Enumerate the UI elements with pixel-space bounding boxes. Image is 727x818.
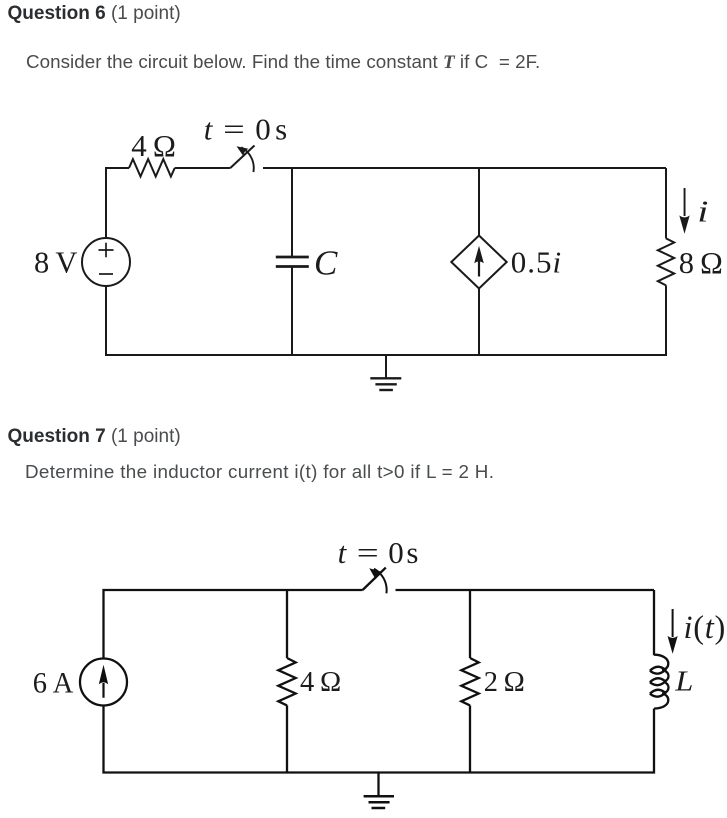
svg-text:8 V: 8 V [34,245,77,279]
svg-text:4 Ω: 4 Ω [300,667,341,698]
resistor R 4ohm circuit2 (vertical) [278,658,295,705]
ground GND2 stem [377,773,379,797]
ground GND1 stem [385,355,387,378]
svg-text:C: C [314,243,338,282]
svg-text:6 A: 6 A [33,668,74,700]
voltage source V1 circle 8V [82,238,130,286]
switch SW1 blade (open) [230,146,254,169]
svg-text:i(t): i(t) [684,610,727,646]
ground GND2 bar1 [364,795,394,798]
svg-text:0.5i: 0.5i [511,245,562,280]
resistor branch 4ohm wire bottom [286,705,288,772]
wire: resistor to switch pivot [175,167,231,169]
resistor R 4ohm (horizontal) [129,159,175,176]
switch SW2 blade (open) [363,568,386,590]
wire: 8ohm to bottom-right corner [106,285,666,355]
inductor L bump2 [665,683,668,693]
svg-text:L: L [674,665,693,697]
svg-text:i: i [697,194,708,228]
dependent source U1 internal arrow [474,246,484,277]
svg-text:4 Ω: 4 Ω [131,128,176,163]
svg-text:2 Ω: 2 Ω [484,667,525,698]
inductor L loop3 [650,690,666,697]
ground GND2 bar2 [369,801,390,804]
wire: circuit2 right edge to inductor [653,590,655,655]
current arrow i (circuit1) [679,188,689,234]
Question 7 header [8,426,181,448]
wire: switch to top-right corner [263,167,666,169]
svg-text:t=0s: t=0s [204,112,287,147]
switch SW1 arc arrowhead [237,146,249,156]
V1 minus sign [99,273,113,275]
wire: inductor to bottom-right corner [104,706,655,773]
inductor L bump1 [665,671,668,681]
ground GND1 bar2 [375,383,396,385]
resistor branch 2ohm wire top [469,590,471,658]
current source I1 internal arrow [99,665,108,698]
switch SW1 opening arc [241,147,253,172]
capacitor C top plate [276,256,309,259]
resistor R 2ohm circuit2 (vertical) [461,658,478,705]
switch SW2 opening arc [374,569,387,594]
Question 6 prompt [26,51,540,74]
ground GND1 bar3 [379,389,393,391]
switch SW2 arc arrowhead [369,568,381,579]
resistor branch 2ohm wire bottom [469,705,471,772]
wire: circuit1 right edge down to resistor [665,168,667,238]
wire: switch to top-right corner circuit2 [396,589,655,591]
ground GND1 bar1 [370,377,401,379]
svg-text:t=0s: t=0s [338,535,419,570]
svg-text:8 Ω: 8 Ω [679,246,723,280]
V1 plus sign [99,243,114,257]
dependent current source U1 diamond [451,236,506,289]
dependent source branch wire bottom [478,289,480,356]
inductor L top hook [654,655,668,671]
wire: capacitor branch top [291,168,293,257]
inductor L bottom hook [654,693,668,708]
current arrow i(t) (circuit2) [668,609,678,654]
inductor L loop2 [650,678,666,685]
ground GND2 bar3 [372,807,386,810]
resistor R 8ohm (vertical) [658,238,674,285]
wire: circuit1 top-left from source to resistor [106,168,129,238]
resistor branch 4ohm wire top [286,590,288,658]
current source I1 circle 6A [80,659,127,706]
Question 6 header [8,3,181,25]
wire: capacitor branch bottom [291,267,293,356]
capacitor C bottom plate [276,265,309,268]
dependent source branch wire top [478,168,480,236]
inductor L loop1 [650,667,666,674]
wire: circuit2 top-left [104,590,363,659]
Question 7 prompt [25,461,494,483]
